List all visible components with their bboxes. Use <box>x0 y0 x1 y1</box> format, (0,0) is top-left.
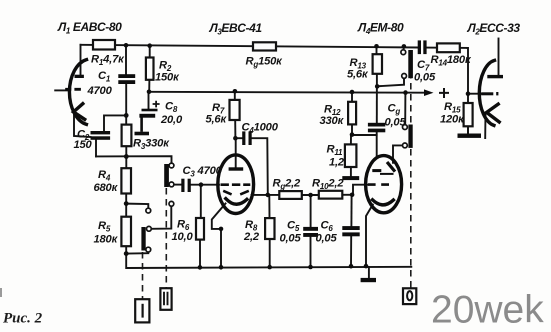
svg-text:Л4EM-80: Л4EM-80 <box>357 21 404 37</box>
node dot second bus jack 2 <box>403 90 408 95</box>
capacitor C4 <box>242 131 252 145</box>
resistor R14 <box>437 43 460 52</box>
svg-text:180к: 180к <box>94 234 119 246</box>
wire anode lead L1 <box>80 45 82 75</box>
svg-text:Л2ECC-33: Л2ECC-33 <box>467 21 521 37</box>
wire L3 anode stem <box>235 138 237 167</box>
jack 1 contact 2 <box>402 74 407 79</box>
svg-text:150к: 150к <box>155 72 180 84</box>
node dot bus L3 cathode <box>219 265 224 270</box>
jack B contact 2 <box>147 226 152 231</box>
svg-text:0,05: 0,05 <box>280 233 302 245</box>
wire R14 corner down to R15 and ground <box>467 48 470 134</box>
node dot second bus R12 <box>350 90 355 95</box>
wire jack A contact 2 to C3 <box>174 184 181 186</box>
jack B contact 1 <box>146 208 151 213</box>
wire C2 bottom to node B line <box>95 140 97 157</box>
node dot bus C6 <box>349 264 354 269</box>
capacitor C8 electrolytic <box>139 109 157 118</box>
resistor R3 <box>122 125 132 147</box>
wire jack B contact 2 to jack A contact 3 <box>151 206 171 229</box>
jack 1 plug bar <box>408 50 413 78</box>
jack 1 contact 1 <box>401 50 406 55</box>
tube L2 anode plate <box>487 75 503 78</box>
node dot R5 bottom <box>124 251 129 256</box>
node dot top bus jack 1 <box>402 44 407 49</box>
wire C3 to L3 grid <box>191 184 219 186</box>
tube L2 grid bar <box>481 92 493 95</box>
node dot A C2 R3 <box>124 113 129 118</box>
wire R12 top lead <box>351 92 353 102</box>
svg-text:R14,7к: R14,7к <box>91 54 125 68</box>
node dot C4 R9 R8 <box>266 193 271 198</box>
tube L2 cathode hook <box>487 104 500 122</box>
wire top bus C7 to R14 <box>427 47 468 49</box>
svg-text:C3 4700: C3 4700 <box>183 165 223 179</box>
jack A plug bar <box>164 164 169 187</box>
svg-text:Rg150к: Rg150к <box>246 56 284 70</box>
wire C8 negative to chassis <box>140 117 143 132</box>
node dot top bus R2 <box>147 43 152 48</box>
svg-text:0,05: 0,05 <box>414 72 436 84</box>
plug II pin marks <box>164 292 168 306</box>
wire jack 1 top stub <box>403 46 405 50</box>
wire R13 top lead <box>376 46 378 54</box>
wire grid node up to L4 grid <box>352 185 368 195</box>
wire C5 branch <box>310 195 312 227</box>
resistor R10 <box>319 191 343 199</box>
resistor R13 <box>373 54 382 74</box>
arrowhead plus output <box>424 89 434 96</box>
tube L4 step electrode <box>380 173 394 175</box>
tube L4 envelope <box>366 156 402 213</box>
svg-text:5,6к: 5,6к <box>347 69 369 81</box>
svg-text:0,05: 0,05 <box>316 233 338 245</box>
svg-text:1,2: 1,2 <box>329 157 345 169</box>
wire C6 bottom lead <box>350 236 352 266</box>
resistor Rg <box>253 42 276 50</box>
capacitor C6 <box>342 226 359 236</box>
wire L2 cathode lead <box>484 112 486 138</box>
tube L3 cathode arc <box>226 199 247 205</box>
tube L3 diode plates <box>223 191 249 195</box>
svg-text:0,05: 0,05 <box>385 117 407 129</box>
wire L1 cathode lead to C2 <box>74 112 91 137</box>
node dot top bus C1 <box>124 43 129 48</box>
plug box 0 <box>403 288 416 304</box>
wire L2 grid lead <box>468 93 482 95</box>
node dot top bus R13 <box>374 44 379 49</box>
wire R13 bottom through bus2 to C9 <box>376 74 378 123</box>
wire R6 top lead <box>200 185 202 218</box>
wire C6 branch <box>350 195 352 226</box>
wire divider tap to jack B contact 1 <box>126 204 148 208</box>
tube L2 grid tick <box>496 92 498 95</box>
ground chassis bar below C8 <box>135 132 150 136</box>
node dot bus L4 cathode <box>364 264 369 269</box>
svg-text:R14180к: R14180к <box>431 54 472 68</box>
node dot R10 grid C6 <box>350 193 355 198</box>
svg-text:680к: 680к <box>94 182 119 194</box>
resistor R2 <box>146 58 154 80</box>
tube L2 envelope <box>479 60 494 125</box>
svg-text:R3330к: R3330к <box>133 138 170 152</box>
svg-text:Рис. 2: Рис. 2 <box>3 311 43 327</box>
capacitor C5 <box>303 227 318 237</box>
capacitor C7 <box>418 40 427 54</box>
ground chassis bar below R11 <box>342 176 359 180</box>
plug box II <box>160 288 171 310</box>
wire L3 diode lead to R9 <box>252 194 280 196</box>
wire L3 cathode lead <box>212 204 226 268</box>
resistor R11 <box>345 144 357 167</box>
wire R7 top lead <box>234 91 236 100</box>
svg-text:150: 150 <box>74 139 93 151</box>
wire anode node to C4 and L3 plate <box>235 137 242 139</box>
wire R11 bottom stem to chassis <box>350 167 352 177</box>
wire R5 bottom to bottom bus corner <box>126 246 411 268</box>
resistor R12 <box>348 102 356 125</box>
wire second bus with arrow <box>149 91 426 94</box>
wire R12 bottom node <box>351 124 353 135</box>
wire top bus <box>81 45 418 48</box>
tube L4 cathode arc <box>373 200 394 205</box>
wire L2 anode stem top <box>498 39 500 76</box>
wire R2 bottom lead <box>148 80 150 92</box>
wire R15 bottom stem <box>467 126 469 134</box>
wire C8 stub from second bus <box>148 92 150 109</box>
jack A contact 1 <box>169 163 174 168</box>
node dot R12 C9 <box>350 132 355 137</box>
resistor R7 <box>230 100 240 120</box>
capacitor C9 <box>368 123 385 133</box>
ground chassis bar at bottom bus <box>361 278 376 282</box>
jack 2 plug bar <box>408 125 412 148</box>
node dot B R3 bottom <box>124 154 129 159</box>
wire R8 top lead <box>268 195 270 218</box>
jack A contact 3 <box>169 201 174 206</box>
jack B plug bar <box>141 227 145 251</box>
tube L1 heater dashes <box>65 88 81 91</box>
jack B contact 3 <box>146 247 151 252</box>
plug box I <box>135 299 149 322</box>
svg-text:R102,2: R102,2 <box>312 178 344 192</box>
wire R9 to R10 <box>302 194 319 196</box>
wire R8 bottom lead <box>269 239 271 267</box>
switch linkage dashed line to plug I <box>142 252 144 299</box>
wire jack 1 lower contact to R13 node <box>377 78 404 86</box>
node dot L3 cathode <box>219 227 224 232</box>
wire input line into L1 <box>55 89 68 91</box>
resistor R1 <box>93 40 115 50</box>
wire R10 right to grid node <box>342 194 352 196</box>
wire C2 top plate to node A <box>104 115 126 130</box>
node dot bus R8 <box>267 265 272 270</box>
wire R11 top lead <box>350 135 352 144</box>
resistor R8 <box>265 218 274 239</box>
wire C1 branch from top bus <box>125 46 127 76</box>
node dot divider tap <box>124 201 129 206</box>
tube L4 anode plate <box>372 169 381 172</box>
capacitor C3 <box>181 179 191 192</box>
tube L4 deflector diagonal <box>387 162 395 172</box>
tube L4 grid dashes <box>368 183 389 186</box>
wire C5 bottom lead <box>310 237 312 267</box>
tube L1 cathode hook <box>74 104 85 120</box>
switch linkage dashed line to plug 0 <box>410 50 412 288</box>
wire second bus to jack 2 upper contact <box>404 93 406 125</box>
tube L3 anode plate <box>229 167 244 170</box>
wire R4 to R5 rail <box>125 193 127 217</box>
svg-text:120к: 120к <box>440 114 465 126</box>
plus sign C8 polarity <box>153 101 160 108</box>
ground chassis bar below R15 <box>458 134 482 138</box>
svg-text:4700: 4700 <box>87 85 113 97</box>
node dot C3 R6 <box>199 182 204 187</box>
svg-text:5,6к: 5,6к <box>206 114 228 126</box>
node dot bus C5 <box>308 265 313 270</box>
wire R5 bottom junction to jack B contact 3 <box>126 252 148 254</box>
tube L3 grid dashes <box>221 183 251 186</box>
jack A contact 2 <box>169 182 174 187</box>
svg-text:Л3EBC-41: Л3EBC-41 <box>209 21 263 37</box>
wire R7 bottom to anode node <box>234 120 236 138</box>
wire R2 top lead <box>149 46 151 58</box>
svg-text:20,0: 20,0 <box>160 114 183 126</box>
plus sign output <box>439 88 449 98</box>
node dot R14 R15 grid <box>466 91 471 96</box>
node dot second bus R7 <box>233 89 238 94</box>
jack 2 contact 2 <box>403 143 408 148</box>
wire C9 bottom to L4 anode <box>376 132 378 157</box>
tube L3 envelope <box>218 155 254 214</box>
capacitor C2 <box>91 131 111 140</box>
scan margin mark lower <box>0 288 2 297</box>
svg-text:330к: 330к <box>320 115 345 127</box>
wire R12 bottom to C9 bottom <box>352 134 377 136</box>
wire C4 right to R9 node <box>252 138 268 195</box>
resistor R4 <box>121 168 131 193</box>
wire L4 cathode lead <box>366 205 373 266</box>
svg-text:C41000: C41000 <box>242 122 279 136</box>
wire R6 bottom lead <box>199 239 201 267</box>
wire jack 2 lower contact to L4 deflector <box>393 145 403 162</box>
resistor R15 <box>464 103 473 126</box>
wire R3 bottom lead <box>125 146 127 168</box>
ground chassis stem at bottom bus <box>368 267 370 278</box>
node dot R9 R10 C5 <box>308 193 313 198</box>
node dot R13 jack link <box>375 84 380 89</box>
svg-text:Rg2,2: Rg2,2 <box>273 178 302 192</box>
wire node B horizontal to jack contact <box>96 156 172 163</box>
capacitor C1 <box>118 74 135 84</box>
svg-text:10,0: 10,0 <box>172 231 194 243</box>
resistor R5 <box>121 217 131 247</box>
node dot anode R7 C4 <box>233 136 238 141</box>
node dot second bus R2 C8 <box>147 90 152 95</box>
node dot bus R6 <box>198 265 203 270</box>
resistor R9 <box>279 191 302 199</box>
plug I pin mark <box>142 304 144 318</box>
svg-text:20wek: 20wek <box>431 289 544 332</box>
tube L1 envelope <box>69 60 86 125</box>
plug 0 mark <box>407 291 412 300</box>
wire C1 bottom to R3 top <box>125 84 127 125</box>
resistor R6 <box>196 218 204 240</box>
switch linkage dashed line to plug II <box>165 188 167 288</box>
jack 2 contact 1 <box>403 125 408 130</box>
tube L1 anode plate <box>75 75 84 78</box>
svg-text:2,2: 2,2 <box>243 231 260 243</box>
